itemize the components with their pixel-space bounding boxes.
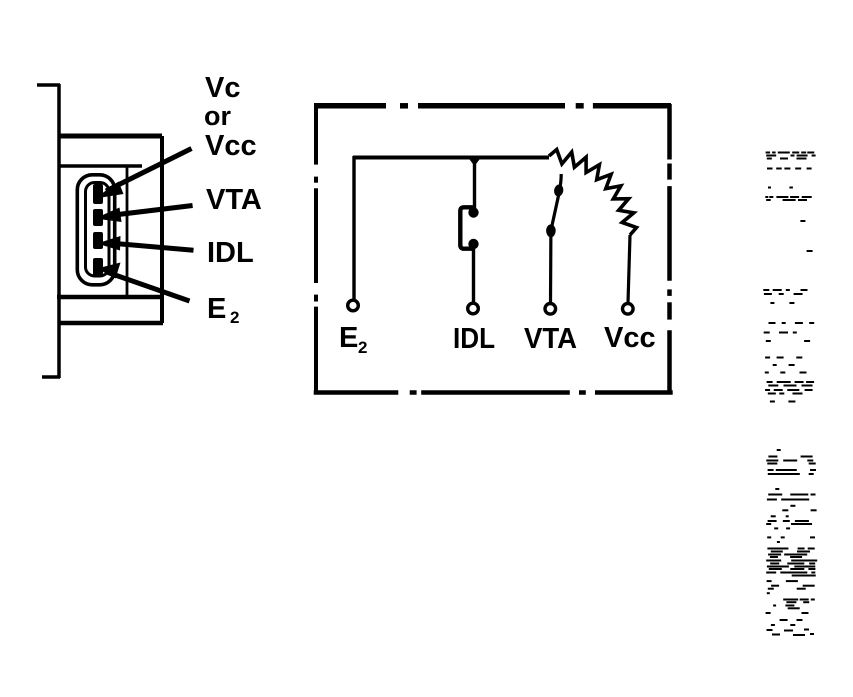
connector socket inner rim xyxy=(86,183,110,277)
leader arrow to pin 4 (E2) xyxy=(97,263,190,302)
scan noise column (adjacent page text bleed) xyxy=(763,152,817,637)
svg-text:Vcc: Vcc xyxy=(205,130,257,162)
terminal Vcc (open circle) xyxy=(623,304,634,315)
IDL switch lower contact (dot) xyxy=(468,239,478,249)
wire: E2 vertical riser xyxy=(352,156,355,299)
svg-text:E: E xyxy=(339,322,358,354)
label E2 (circuit) xyxy=(339,322,367,357)
connector socket outer rim xyxy=(77,175,114,285)
connector housing inner bottom edge xyxy=(57,295,164,300)
svg-text:VTA: VTA xyxy=(206,184,262,216)
wire: VTA vertical xyxy=(549,231,553,303)
svg-text:2: 2 xyxy=(358,338,367,357)
VTA wiper upper contact (dot) xyxy=(553,184,564,197)
connector housing right edge xyxy=(160,136,164,323)
wire: IDL vertical upper xyxy=(473,156,476,212)
VTA wiper lower contact (dot) xyxy=(546,224,556,237)
connector housing inner top edge xyxy=(58,164,142,168)
terminal E2 (open circle) xyxy=(348,300,359,311)
connector housing top edge xyxy=(58,134,162,139)
label E2 (connector) xyxy=(207,293,239,327)
node: junction at IDL branch xyxy=(467,156,483,167)
resistor (curved zigzag track) xyxy=(549,150,637,236)
terminal IDL (open circle) xyxy=(468,303,479,314)
svg-text:IDL: IDL xyxy=(453,322,495,355)
pin IDL (terminal 3) xyxy=(93,232,103,249)
dash-dot boundary: bottom xyxy=(314,390,673,395)
IDL switch upper contact (dot) xyxy=(468,207,478,217)
dash-dot boundary: left xyxy=(314,104,318,392)
dash-dot boundary: right xyxy=(667,104,672,393)
svg-text:Vc: Vc xyxy=(205,72,240,104)
connector recess wall xyxy=(126,166,129,297)
svg-text:Vcc: Vcc xyxy=(604,322,656,354)
connector housing bottom edge xyxy=(58,321,163,326)
leader arrow to pin 1 (Vc/Vcc) xyxy=(95,149,192,199)
VTA wiper blade xyxy=(551,174,561,231)
wire: Vcc vertical xyxy=(628,235,630,303)
pin Vc/Vcc (terminal 1) xyxy=(93,184,103,204)
svg-text:VTA: VTA xyxy=(524,321,577,354)
terminal VTA (open circle) xyxy=(545,304,556,315)
svg-text:E: E xyxy=(207,293,226,325)
svg-text:or: or xyxy=(204,101,231,131)
leader arrow to pin 2 (VTA) xyxy=(95,206,193,223)
dash-dot boundary: top xyxy=(314,103,671,109)
leader arrow to pin 3 (IDL) xyxy=(97,236,194,251)
pin E2 (terminal 4) xyxy=(93,258,103,277)
svg-text:IDL: IDL xyxy=(207,237,254,269)
svg-text:2: 2 xyxy=(230,308,239,327)
pin VTA (terminal 2) xyxy=(93,209,103,226)
connector mounting bracket xyxy=(37,84,60,378)
wire: IDL vertical lower xyxy=(472,244,475,303)
IDL switch movable bracket contact xyxy=(460,207,474,248)
wire: top bus from E2 riser to resistor xyxy=(353,156,549,160)
